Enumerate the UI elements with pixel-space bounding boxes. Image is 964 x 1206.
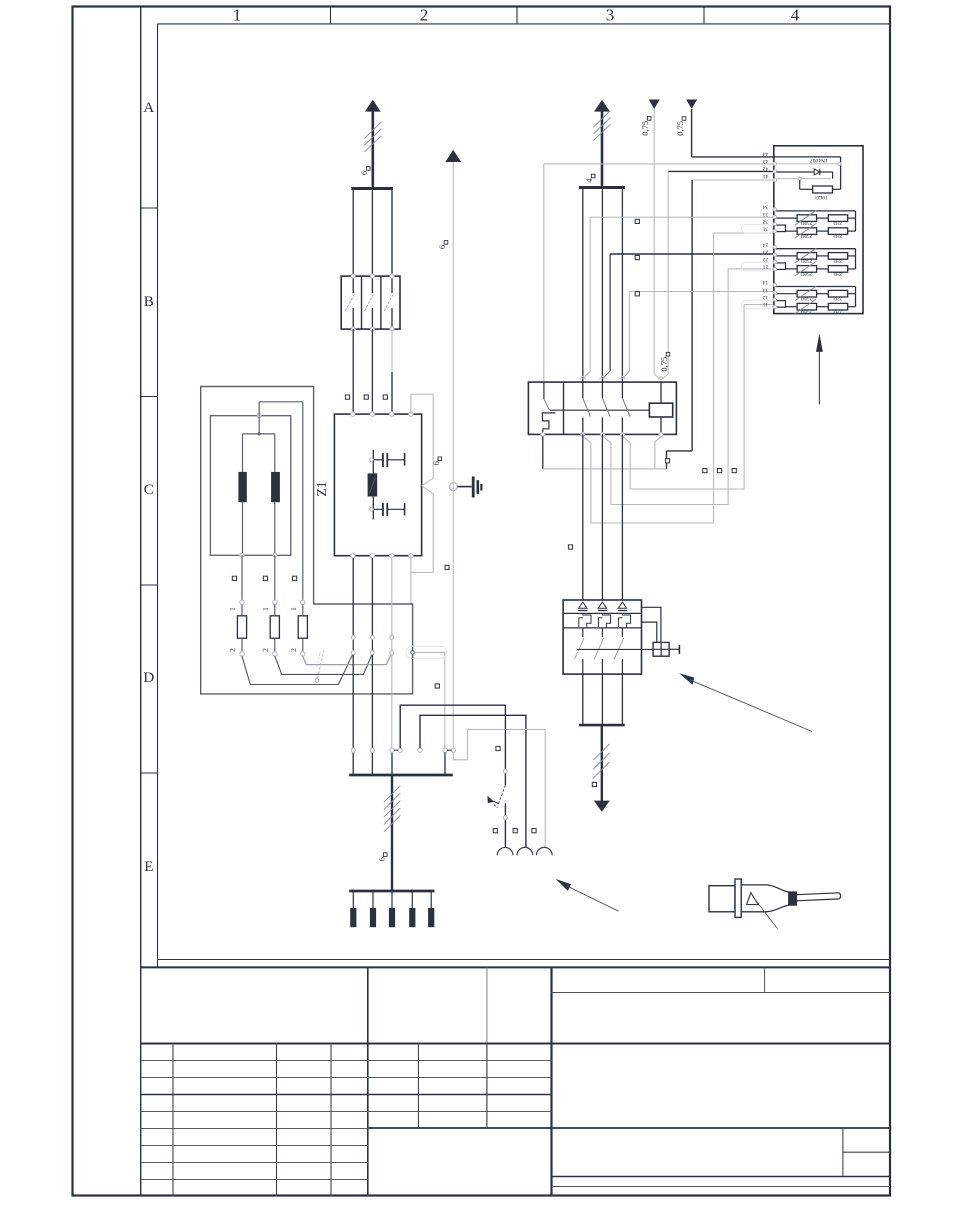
title block heavy divider x551 bbox=[550, 967, 552, 1196]
bus terminal pair 3 bbox=[390, 748, 394, 752]
disconnect terminal pair pole 1 bbox=[352, 639, 354, 650]
PE gray U-link bbox=[453, 729, 545, 848]
motor cable hatching bbox=[593, 744, 609, 760]
revision table column b bbox=[276, 1044, 278, 1197]
table row line 1 bbox=[141, 1060, 552, 1062]
svg-text:2: 2 bbox=[228, 648, 237, 652]
svg-text:250Ω: 250Ω bbox=[801, 270, 813, 276]
svg-text:1: 1 bbox=[289, 607, 298, 611]
wire label square f3 bbox=[293, 576, 297, 580]
svg-text:B: B bbox=[144, 294, 154, 310]
wire L3 bus to breaker bbox=[391, 190, 393, 276]
motor cable conductor bbox=[601, 725, 603, 804]
earth stud 1 bbox=[352, 891, 354, 909]
svg-text:12: 12 bbox=[763, 294, 769, 300]
wire label 075 c bbox=[666, 352, 670, 356]
socket contact arc 2 bbox=[517, 847, 533, 855]
wire label square k1 bbox=[568, 545, 572, 549]
Z1 capacitor C1 bbox=[373, 459, 382, 461]
wire L2 bus to breaker bbox=[371, 190, 373, 276]
wire L1 bus to breaker bbox=[352, 190, 354, 276]
primary junction top bbox=[257, 414, 261, 418]
pin circle 41 bbox=[773, 178, 776, 181]
bus terminal pair 5 bbox=[443, 748, 447, 752]
board callout arrow up bbox=[818, 352, 820, 405]
wire T2 bus to contactor bbox=[601, 189, 603, 382]
svg-text:250Ω: 250Ω bbox=[801, 257, 813, 263]
filing margin divider line bbox=[140, 7, 142, 1196]
column-number header line bbox=[158, 23, 891, 25]
main earth bus bar bbox=[349, 774, 453, 777]
PE drop hatching bbox=[384, 786, 400, 802]
svg-text:24: 24 bbox=[763, 241, 769, 247]
disconnect terminal pair pole 3 bbox=[391, 639, 393, 650]
pin41 internal wire bbox=[777, 178, 832, 180]
title block header row split right bbox=[552, 992, 891, 994]
middle table column x487 lower bbox=[486, 1044, 488, 1129]
wire label square L1 bbox=[345, 395, 349, 399]
svg-text:2: 2 bbox=[420, 6, 429, 25]
wire Z1 out L2 down bbox=[371, 558, 373, 636]
svg-text:2: 2 bbox=[289, 648, 298, 652]
svg-text:6: 6 bbox=[437, 245, 447, 249]
title block divider x368 bbox=[367, 967, 369, 1196]
wire T2 contactor to motor breaker bbox=[601, 434, 603, 600]
wire T1 bus to contactor bbox=[582, 189, 584, 382]
wire pin21 return gray bbox=[602, 269, 773, 505]
wire label square bus bbox=[496, 746, 500, 750]
row tick B-C bbox=[141, 396, 158, 398]
capsule group 14 bbox=[742, 300, 773, 309]
wire winding1 to fuse1 bbox=[241, 555, 243, 602]
contactor main contact 3 bbox=[621, 382, 623, 398]
wire pin11 return gray bbox=[622, 305, 773, 490]
PE wire Z1 top link bbox=[410, 394, 412, 414]
svg-text:D: D bbox=[143, 670, 154, 686]
Z1 bottom terminal 4 bbox=[409, 554, 413, 558]
socket contact arc 1 bbox=[497, 847, 513, 855]
svg-text:0,75: 0,75 bbox=[659, 357, 669, 372]
Z1 top terminal 3 bbox=[390, 412, 394, 416]
PE wire Z1 bottom link bbox=[411, 572, 433, 574]
wire pin41 bbox=[692, 179, 774, 181]
svg-text:10Ω3: 10Ω3 bbox=[815, 194, 828, 200]
wire label 075 b bbox=[682, 117, 686, 121]
svg-text:E: E bbox=[144, 859, 153, 875]
svg-text:21: 21 bbox=[763, 263, 769, 269]
svg-text:1N4007: 1N4007 bbox=[810, 157, 828, 163]
junction capsule highlight bbox=[406, 646, 447, 658]
name plate inner row bbox=[843, 1151, 890, 1153]
wire label square r1 bbox=[703, 469, 707, 473]
earth stud 2 bbox=[372, 891, 374, 909]
bus terminal circle 1 bbox=[351, 748, 355, 752]
svg-text:250Ω: 250Ω bbox=[801, 220, 813, 226]
circuit breaker Q1 box bbox=[341, 276, 400, 329]
wire pole3 to bus gray bbox=[391, 655, 393, 749]
pin circle 43 bbox=[773, 162, 776, 165]
transformer inner box bbox=[210, 416, 290, 556]
svg-text:22Ω: 22Ω bbox=[833, 308, 842, 314]
capsule group 34 bbox=[742, 225, 773, 234]
plug strain relief band bbox=[789, 892, 797, 905]
breaker pole 2 bbox=[371, 276, 373, 293]
plug triangle marking bbox=[747, 893, 759, 905]
fuse F1 tail wire bbox=[242, 655, 352, 684]
title block header sub divider bbox=[764, 967, 766, 992]
wire label square L2 bbox=[364, 395, 368, 399]
svg-text:22Ω: 22Ω bbox=[833, 220, 842, 226]
svg-text:44: 44 bbox=[763, 150, 769, 156]
svg-text:6: 6 bbox=[431, 461, 441, 465]
inner box bottom terminal 1 bbox=[240, 553, 244, 557]
motor breaker output wires bbox=[582, 674, 584, 725]
svg-text:33: 33 bbox=[763, 211, 769, 217]
wire label square junction bbox=[435, 684, 439, 688]
motor cable arrow down bbox=[594, 801, 610, 812]
wire L1 breaker to Z1 bbox=[352, 329, 354, 414]
wire pin33 gray bbox=[590, 216, 774, 218]
wire pole3 to bus dark stub bbox=[391, 752, 393, 775]
wire winding2 to fuse2 bbox=[274, 555, 276, 602]
aux contact bottom wire bbox=[542, 436, 544, 469]
title block top edge bbox=[141, 966, 890, 968]
Z1 top terminal 2 bbox=[370, 412, 374, 416]
wire pin42 bbox=[668, 170, 774, 172]
terminal group 34-31 bbox=[774, 210, 856, 212]
name plate lower band line bbox=[552, 1186, 891, 1188]
title block mid band top edge bbox=[141, 1043, 890, 1045]
wire T3 contactor to motor breaker bbox=[621, 434, 623, 600]
row tick C-D bbox=[141, 584, 158, 586]
terminal group 24-21 bbox=[774, 248, 856, 250]
bus terminal circle 2 bbox=[370, 748, 374, 752]
svg-text:11: 11 bbox=[763, 301, 769, 307]
name plate bottom line bbox=[552, 1176, 891, 1178]
Z1 bottom terminal 2 bbox=[370, 554, 374, 558]
wire L3 breaker to Z1 dark lower bbox=[391, 372, 393, 414]
Z1 capacitor C2 bbox=[373, 508, 382, 510]
plug body bbox=[709, 886, 735, 912]
svg-text:13: 13 bbox=[763, 287, 769, 293]
fuse F3 tail wire gray bbox=[303, 655, 391, 664]
line filter Z1 box bbox=[334, 414, 421, 556]
contactor K1 box bbox=[528, 382, 676, 434]
disconnect terminal pair pole 2 bbox=[371, 639, 373, 650]
column tick 2-3 bbox=[516, 7, 518, 24]
table row line 7 bbox=[141, 1162, 368, 1164]
svg-text:0,75: 0,75 bbox=[675, 121, 685, 136]
motor breaker trip linkage bbox=[577, 648, 653, 650]
contactor linkage line bbox=[550, 409, 650, 411]
row tick D-E bbox=[141, 772, 158, 774]
svg-text:1: 1 bbox=[228, 607, 237, 611]
table row line 6 bbox=[141, 1145, 368, 1147]
svg-text:6: 6 bbox=[359, 171, 369, 175]
PE conductor arrow up bbox=[365, 100, 381, 112]
revision table column a bbox=[172, 1044, 174, 1197]
svg-text:22Ω: 22Ω bbox=[833, 270, 842, 276]
column tick 1-2 bbox=[330, 7, 332, 24]
svg-text:250Ω: 250Ω bbox=[801, 295, 813, 301]
wire pin23 dark bbox=[610, 253, 774, 255]
drawing area bottom line bbox=[158, 959, 891, 961]
motor breaker aux contact block bbox=[653, 642, 669, 656]
svg-text:0,75: 0,75 bbox=[640, 121, 650, 136]
wire label square motor bbox=[592, 782, 596, 786]
wire label square p2 bbox=[513, 829, 517, 833]
fuse F2 tail wire bbox=[275, 655, 372, 674]
middle table column x418 bbox=[417, 1044, 419, 1129]
svg-text:31: 31 bbox=[763, 226, 769, 232]
svg-text:32: 32 bbox=[763, 218, 769, 224]
svg-text:43: 43 bbox=[763, 158, 769, 164]
contactor main contact 2 bbox=[601, 382, 603, 398]
PE drop conductor bbox=[391, 775, 393, 891]
svg-text:250Ω: 250Ω bbox=[801, 308, 813, 314]
table row line 2 bbox=[141, 1077, 552, 1079]
wire label 075 a bbox=[647, 117, 651, 121]
svg-text:23: 23 bbox=[763, 249, 769, 255]
capsule group 24 bbox=[742, 262, 773, 271]
wire to plug pin2 bbox=[420, 715, 526, 848]
svg-text:6: 6 bbox=[376, 857, 386, 861]
earth stud 4 bbox=[411, 891, 413, 909]
wire L2 breaker to Z1 bbox=[371, 329, 373, 414]
plug tapered housing bbox=[741, 885, 789, 912]
transformer enclosure box bbox=[201, 387, 413, 694]
resistor R1 bbox=[813, 186, 833, 193]
wire label 6 mid bbox=[444, 241, 448, 245]
Z1 internal node wire bbox=[372, 450, 374, 520]
bus terminal circle 4 bbox=[418, 748, 422, 752]
Z1 top terminal 1 bbox=[351, 412, 355, 416]
winding W1 bbox=[242, 434, 244, 473]
plug flange bbox=[735, 879, 741, 917]
Z1 inductor body bbox=[368, 474, 377, 496]
svg-text:3: 3 bbox=[606, 6, 615, 25]
Z1 earth terminal notch bbox=[422, 478, 434, 486]
diode circuit wiring bbox=[774, 156, 841, 158]
wire pin43 gray long bbox=[544, 163, 774, 165]
PE riser arrow net 6 bbox=[445, 150, 461, 162]
incoming feed arrow 0,75 a bbox=[649, 100, 660, 109]
svg-text:250Ω: 250Ω bbox=[801, 233, 813, 239]
PE wire Z1 t4 down bbox=[410, 556, 412, 604]
wire label square pin23 bbox=[635, 256, 639, 260]
table row line 4 bbox=[141, 1111, 552, 1113]
gray wire junction to riser bbox=[414, 651, 444, 653]
svg-text:22Ω: 22Ω bbox=[833, 257, 842, 263]
svg-text:1: 1 bbox=[233, 6, 242, 25]
control bus bar bbox=[579, 186, 625, 189]
fuse F2 bbox=[273, 600, 277, 604]
svg-text:22Ω: 22Ω bbox=[833, 233, 842, 239]
svg-text:42: 42 bbox=[763, 165, 769, 171]
wire pin31 return gray bbox=[583, 233, 774, 523]
chassis ground symbol bbox=[450, 483, 458, 491]
wire T1 contactor to motor breaker bbox=[582, 434, 584, 600]
Z1 top terminal 4 bbox=[409, 412, 413, 416]
row tick A-B bbox=[141, 207, 158, 209]
PE wire right of Z1 upper bbox=[432, 394, 434, 478]
wire label square p3 bbox=[532, 829, 536, 833]
wire label square f1 bbox=[232, 576, 236, 580]
coil bottom gray wire bbox=[655, 436, 661, 469]
name plate inner column bbox=[842, 1128, 844, 1177]
plug cable bbox=[797, 893, 841, 901]
wire Z1 out L3 down gray bbox=[391, 558, 393, 636]
incoming feed arrow 0,75 b bbox=[686, 100, 697, 109]
wire label 6 at ground bbox=[438, 457, 442, 461]
table row line 5 bbox=[141, 1128, 368, 1130]
svg-text:Z1: Z1 bbox=[314, 482, 329, 497]
PE arrow 4 net bbox=[594, 100, 610, 112]
wire label 6 bottom bbox=[384, 853, 388, 857]
motor breaker aux links bbox=[642, 607, 661, 642]
svg-text:41: 41 bbox=[763, 173, 769, 179]
enclosure junction point bbox=[411, 651, 415, 655]
wire T3 bus to contactor bbox=[621, 189, 623, 382]
top routing wire to third column bbox=[259, 401, 303, 403]
callout arrow to socket bbox=[556, 879, 572, 891]
svg-text:C: C bbox=[144, 482, 154, 498]
motor breaker pole 1 bbox=[579, 602, 587, 608]
wire label 6 top bbox=[366, 167, 370, 171]
contactor coil bbox=[649, 403, 672, 417]
motor output bus bar bbox=[579, 724, 625, 727]
fuse F3 bbox=[301, 600, 305, 604]
contactor aux contact bbox=[543, 382, 545, 399]
aux feedback riser right bbox=[691, 180, 693, 451]
Z1 bottom terminal 3 bbox=[390, 554, 394, 558]
svg-text:4: 4 bbox=[791, 6, 800, 25]
wire label square p1 bbox=[493, 829, 497, 833]
fuse F1 bbox=[240, 600, 244, 604]
motor breaker pole 2 bbox=[598, 602, 606, 608]
svg-text:1: 1 bbox=[261, 607, 270, 611]
wire pole1 to bus bbox=[352, 655, 354, 775]
svg-text:4: 4 bbox=[584, 178, 594, 183]
wire label square r3 bbox=[732, 469, 736, 473]
plug leader line bbox=[758, 903, 778, 929]
inner box bottom terminal 2 bbox=[273, 553, 277, 557]
terminal board box bbox=[774, 146, 863, 314]
column tick 3-4 bbox=[703, 7, 705, 24]
svg-text:34: 34 bbox=[763, 204, 769, 210]
PE conductor hatching bbox=[364, 122, 381, 138]
revision table column c bbox=[330, 1044, 332, 1197]
PE wire right of Z1 lower bbox=[432, 494, 434, 573]
svg-text:22: 22 bbox=[763, 256, 769, 262]
middle table bottom heavy line bbox=[368, 1127, 890, 1129]
earth stud 3 bbox=[391, 891, 393, 909]
motor breaker Q2 box bbox=[563, 600, 641, 674]
pin circle 42 bbox=[773, 170, 776, 173]
terminal group 14-11 bbox=[774, 286, 856, 288]
wire label square pin13 bbox=[635, 292, 639, 296]
diode D1 bbox=[777, 171, 814, 173]
svg-text:2: 2 bbox=[261, 648, 270, 652]
motor breaker pole 3 bbox=[618, 602, 626, 608]
svg-text:14: 14 bbox=[763, 279, 769, 285]
breaker pole 1 bbox=[352, 276, 354, 293]
wire label square aux bbox=[665, 459, 669, 463]
supply bus bar bbox=[351, 187, 393, 190]
wire L3 breaker to Z1 gray upper bbox=[391, 329, 393, 372]
wire to plug pin1 bbox=[400, 705, 505, 769]
wire label square PE bbox=[445, 565, 449, 569]
breaker pole 3 bbox=[391, 276, 393, 293]
switch actuator dashed symbol bbox=[318, 650, 324, 678]
Z1 bottom terminal 1 bbox=[351, 554, 355, 558]
wire pin13 gray bbox=[629, 291, 773, 293]
wire terminal5 to bus bbox=[444, 752, 446, 775]
earth terminal bus bar bbox=[349, 890, 434, 893]
wire label 4 bbox=[591, 174, 595, 178]
callout arrow to motor breaker bbox=[679, 673, 694, 685]
wire label square L3 bbox=[383, 395, 387, 399]
switch contact on plug line bbox=[503, 769, 507, 773]
table row line 8 bbox=[141, 1179, 368, 1181]
wire label square pin33 bbox=[635, 219, 639, 223]
svg-text:22Ω: 22Ω bbox=[833, 295, 842, 301]
winding W2 bbox=[274, 434, 276, 473]
table row line 3 bbox=[141, 1094, 552, 1096]
row-letter column line bbox=[157, 24, 159, 968]
wire pole2 to bus bbox=[371, 655, 373, 775]
PE hatching 4 net bbox=[594, 111, 611, 127]
contactor main contact 1 bbox=[582, 382, 584, 398]
earth stud 5 bbox=[430, 891, 432, 909]
wire label square r2 bbox=[717, 469, 721, 473]
wire Z1 out L1 down bbox=[352, 558, 354, 636]
svg-text:A: A bbox=[143, 100, 154, 116]
socket contact arc 3 bbox=[536, 847, 552, 855]
wire pin44 bbox=[692, 156, 774, 158]
wire label square f2 bbox=[263, 576, 267, 580]
title block divider x487 bbox=[486, 967, 488, 1127]
